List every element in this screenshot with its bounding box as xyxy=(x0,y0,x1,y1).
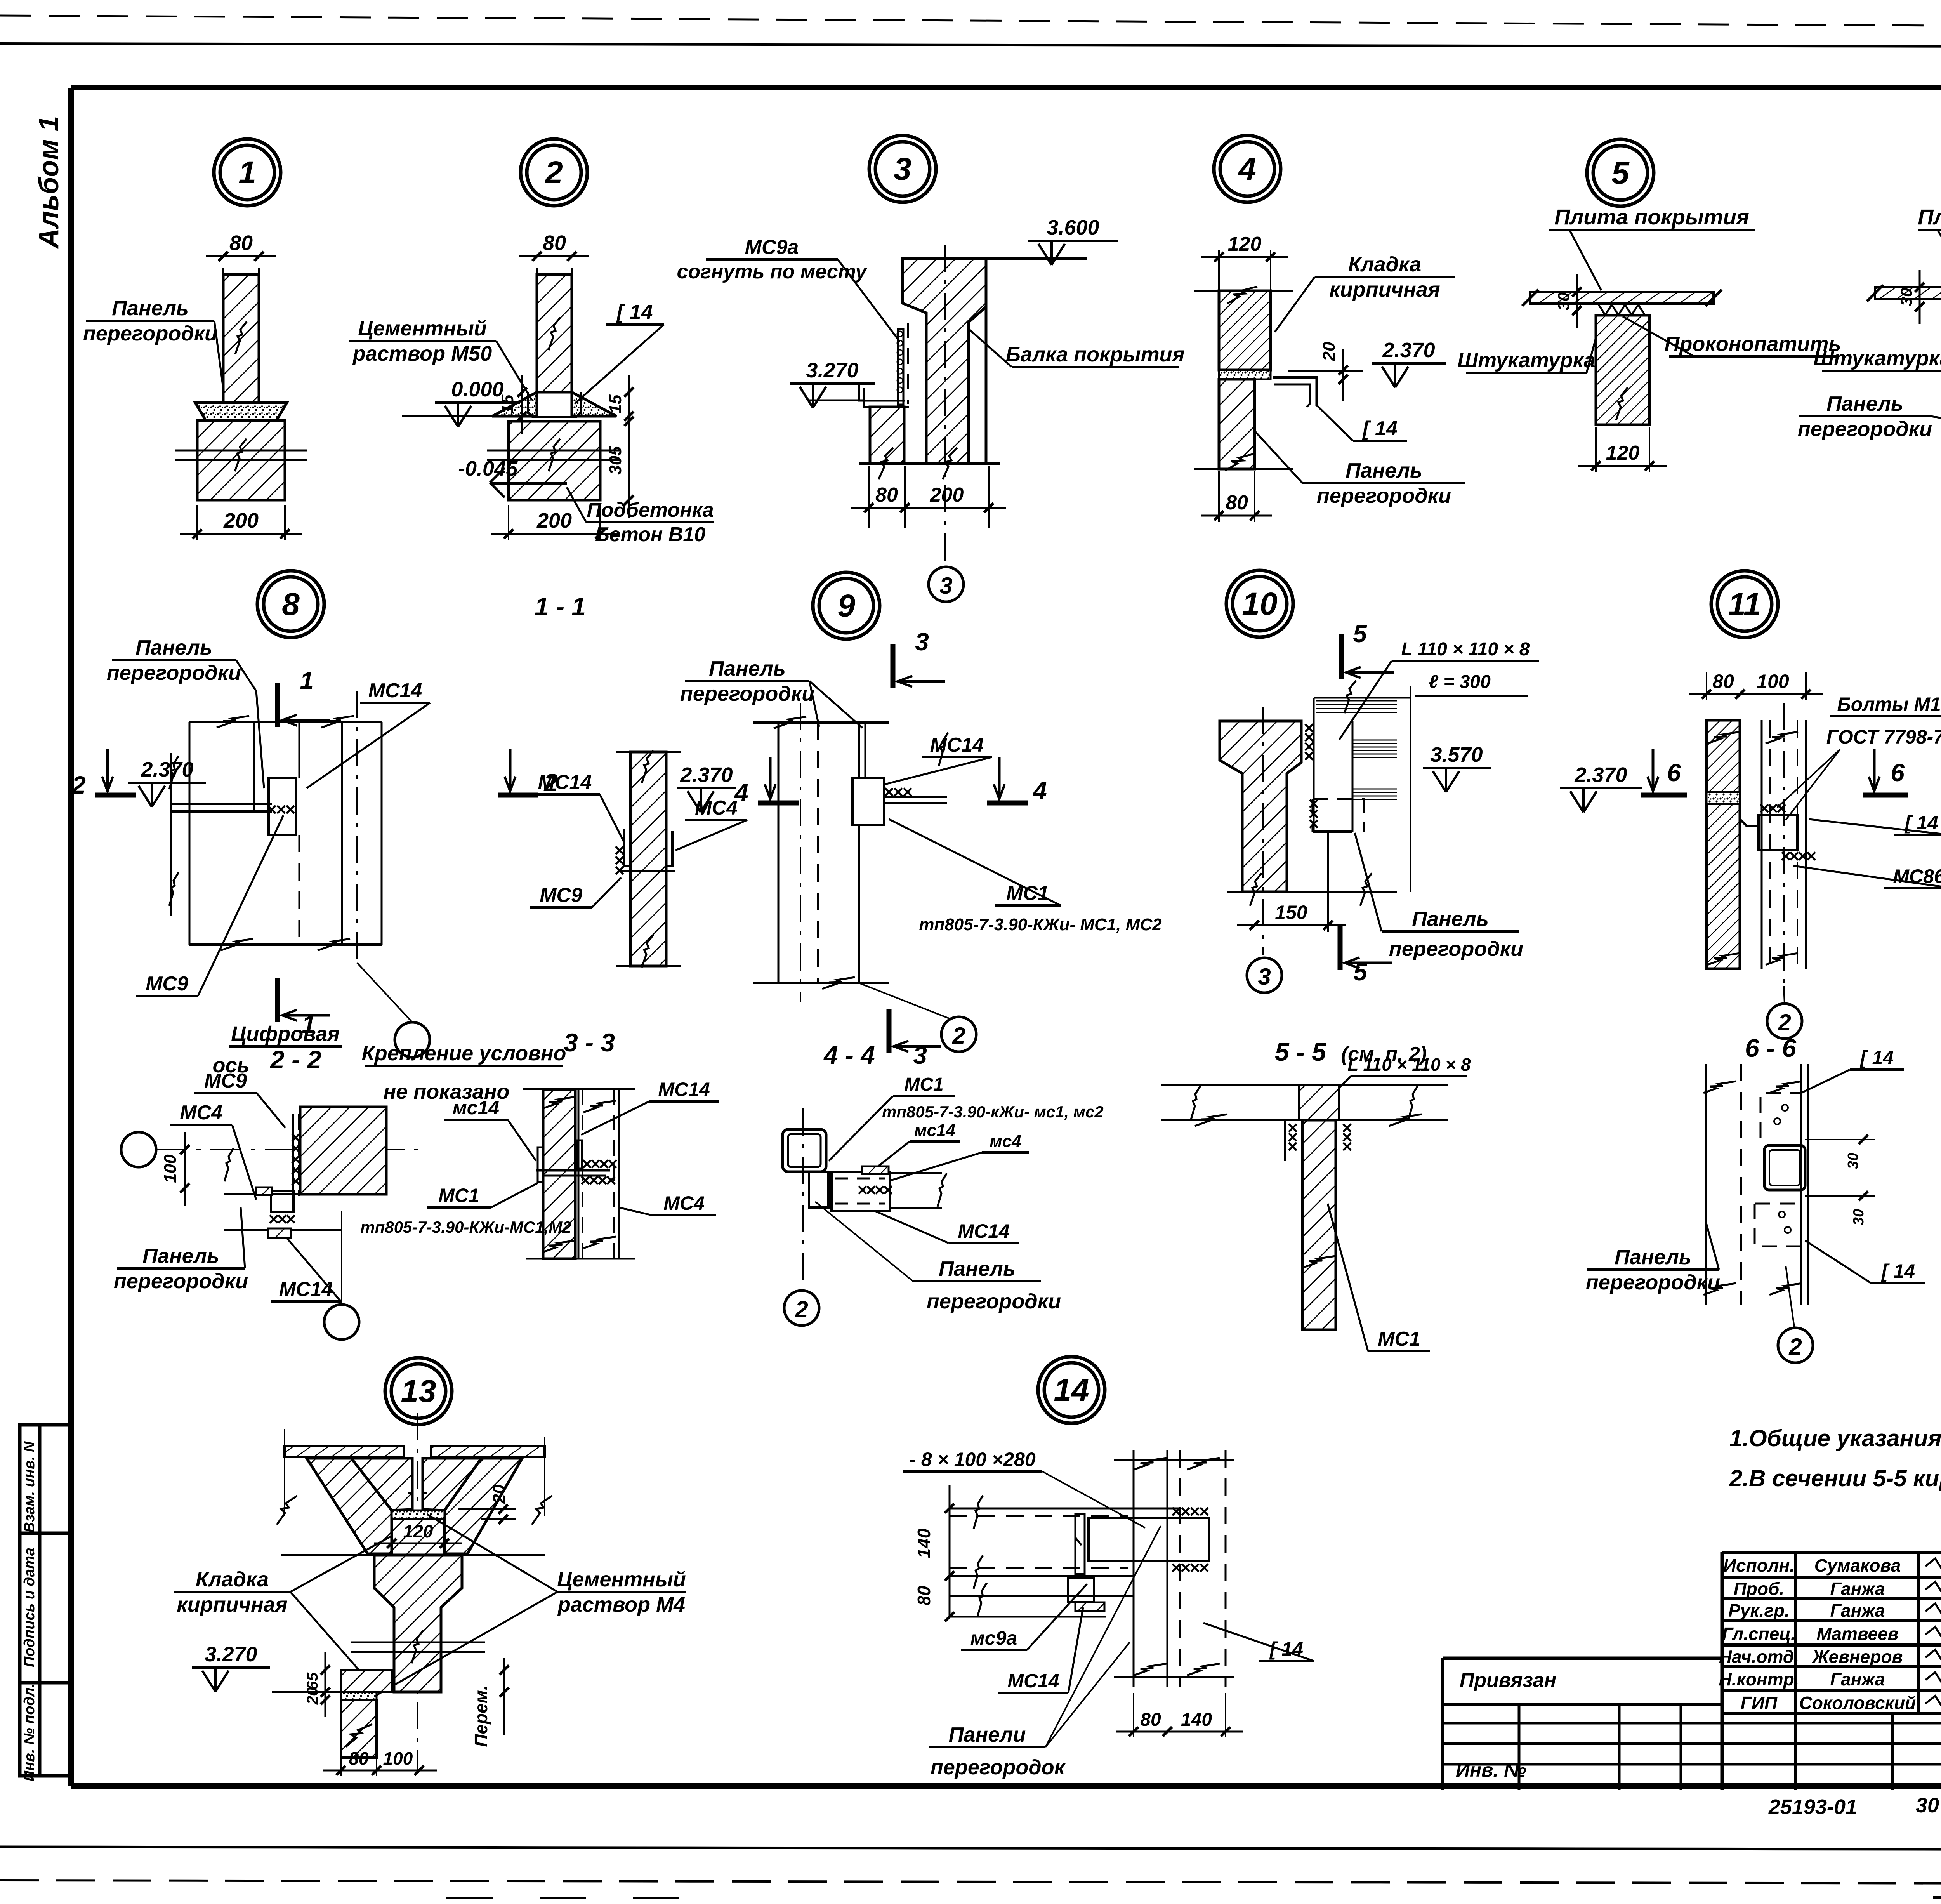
svg-text:перегородки: перегородки xyxy=(114,1270,248,1293)
svg-text:тп805-7-3.90-КЖи-МС1,М2: тп805-7-3.90-КЖи-МС1,М2 xyxy=(360,1218,571,1236)
svg-text:2.370: 2.370 xyxy=(1382,339,1435,362)
svg-text:перегородки: перегородки xyxy=(83,322,217,345)
svg-text:140: 140 xyxy=(1181,1709,1212,1730)
svg-text:80: 80 xyxy=(1712,671,1734,692)
svg-text:100: 100 xyxy=(161,1154,180,1183)
svg-text:Соколовский: Соколовский xyxy=(1799,1693,1916,1713)
svg-text:30: 30 xyxy=(1554,292,1573,311)
svg-text:6 - 6: 6 - 6 xyxy=(1745,1034,1797,1062)
svg-text:1.Общие указания см. лист: 1.Общие указания см. лист 8 xyxy=(1729,1425,1941,1451)
svg-text:20: 20 xyxy=(1319,342,1339,361)
svg-text:Панель: Панель xyxy=(142,1244,219,1268)
svg-text:80: 80 xyxy=(229,231,253,255)
svg-text:5: 5 xyxy=(1611,155,1630,191)
svg-text:Балка покрытия: Балка покрытия xyxy=(1006,343,1185,366)
svg-text:-0.045: -0.045 xyxy=(458,457,518,480)
svg-text:Плита покрытия: Плита покрытия xyxy=(1918,205,1941,229)
svg-text:Инв. №: Инв. № xyxy=(1456,1759,1526,1781)
svg-text:2: 2 xyxy=(544,155,563,190)
svg-text:МС14: МС14 xyxy=(538,771,592,794)
svg-text:2: 2 xyxy=(952,1023,965,1049)
svg-text:Панель: Панель xyxy=(1412,907,1489,931)
svg-text:перегородок: перегородок xyxy=(931,1756,1066,1779)
svg-text:25193-01: 25193-01 xyxy=(1768,1795,1857,1819)
svg-text:МС4: МС4 xyxy=(663,1192,705,1214)
svg-text:МС1: МС1 xyxy=(1378,1328,1420,1350)
svg-text:6: 6 xyxy=(1667,759,1681,787)
svg-text:80: 80 xyxy=(1226,492,1248,514)
svg-text:Сумакова: Сумакова xyxy=(1814,1555,1901,1576)
svg-text:Кладка: Кладка xyxy=(196,1568,269,1591)
svg-text:Матвеев: Матвеев xyxy=(1817,1624,1899,1644)
svg-text:Плита покрытия: Плита покрытия xyxy=(1554,205,1749,229)
svg-text:11: 11 xyxy=(1728,587,1761,622)
svg-text:4 - 4: 4 - 4 xyxy=(823,1041,875,1069)
svg-text:3.600: 3.600 xyxy=(1047,216,1099,239)
svg-text:6: 6 xyxy=(1891,759,1905,787)
svg-text:5: 5 xyxy=(1353,620,1367,648)
svg-text:Гл.спец.: Гл.спец. xyxy=(1722,1624,1796,1644)
svg-text:МС1: МС1 xyxy=(438,1185,479,1206)
svg-text:200: 200 xyxy=(930,484,964,506)
svg-text:3.270: 3.270 xyxy=(806,359,858,382)
svg-text:Перем.: Перем. xyxy=(471,1685,491,1747)
svg-text:305: 305 xyxy=(606,446,625,475)
svg-text:20: 20 xyxy=(490,1484,509,1504)
svg-text:5: 5 xyxy=(1353,958,1368,986)
svg-text:2.370: 2.370 xyxy=(1574,763,1627,787)
svg-text:перегородки: перегородки xyxy=(1586,1271,1720,1294)
svg-text:3: 3 xyxy=(939,573,952,599)
svg-text:8: 8 xyxy=(282,587,300,622)
svg-text:- 8 × 100 ×280: - 8 × 100 ×280 xyxy=(909,1449,1035,1470)
svg-text:Цементный: Цементный xyxy=(557,1568,686,1591)
svg-text:3: 3 xyxy=(915,628,929,656)
svg-text:Панели: Панели xyxy=(949,1723,1026,1746)
svg-text:3.570: 3.570 xyxy=(1430,743,1483,766)
svg-text:2: 2 xyxy=(795,1296,808,1322)
svg-text:МС9: МС9 xyxy=(540,884,582,907)
svg-text:Панель: Панель xyxy=(135,636,212,659)
svg-text:30: 30 xyxy=(1897,288,1915,306)
svg-text:Проб.: Проб. xyxy=(1734,1579,1785,1599)
svg-text:Панель: Панель xyxy=(709,657,786,680)
svg-text:140: 140 xyxy=(914,1528,934,1558)
svg-text:Инв. № подл.: Инв. № подл. xyxy=(21,1683,38,1782)
svg-text:мс14: мс14 xyxy=(453,1097,499,1119)
svg-text:15: 15 xyxy=(606,394,625,413)
svg-text:тп805-7-3.90-кЖи- мс1, мс2: тп805-7-3.90-кЖи- мс1, мс2 xyxy=(882,1103,1104,1121)
svg-text:Привязан: Привязан xyxy=(1460,1669,1556,1692)
svg-text:МС14: МС14 xyxy=(1007,1670,1059,1692)
svg-text:перегородки: перегородки xyxy=(107,661,241,684)
svg-text:80: 80 xyxy=(349,1748,369,1768)
svg-text:Панель: Панель xyxy=(1615,1246,1691,1269)
svg-text:5 - 5: 5 - 5 xyxy=(1275,1037,1326,1066)
svg-text:1: 1 xyxy=(300,667,314,695)
svg-text:Панель: Панель xyxy=(112,297,189,320)
svg-text:Панель: Панель xyxy=(939,1257,1016,1280)
svg-text:Ганжа: Ганжа xyxy=(1830,1669,1885,1689)
svg-text:120: 120 xyxy=(1606,442,1640,464)
svg-text:2.370: 2.370 xyxy=(680,763,733,787)
svg-text:30: 30 xyxy=(1851,1209,1867,1225)
svg-text:120: 120 xyxy=(403,1521,433,1541)
svg-text:Исполн.: Исполн. xyxy=(1723,1555,1795,1576)
svg-text:Взам. инв. N: Взам. инв. N xyxy=(21,1441,38,1532)
svg-text:65: 65 xyxy=(304,1672,321,1690)
svg-text:мс9а: мс9а xyxy=(970,1627,1017,1649)
svg-text:Подбетонка: Подбетонка xyxy=(587,499,714,521)
svg-text:Подпись и дата: Подпись и дата xyxy=(21,1548,38,1667)
svg-text:Панель: Панель xyxy=(1826,392,1903,415)
svg-text:13: 13 xyxy=(401,1374,436,1409)
svg-text:Нач.отд.: Нач.отд. xyxy=(1719,1647,1799,1667)
svg-text:200: 200 xyxy=(536,509,572,532)
svg-text:120: 120 xyxy=(1228,233,1262,255)
svg-text:2: 2 xyxy=(71,771,86,799)
svg-text:МС4: МС4 xyxy=(180,1101,222,1124)
svg-text:МС14: МС14 xyxy=(658,1079,710,1100)
svg-text:раствор М4: раствор М4 xyxy=(557,1593,685,1616)
svg-text:Жевнеров: Жевнеров xyxy=(1812,1647,1903,1667)
svg-text:Н.контр.: Н.контр. xyxy=(1719,1669,1799,1689)
svg-text:Ганжа: Ганжа xyxy=(1830,1579,1885,1599)
svg-text:2.370: 2.370 xyxy=(141,758,193,781)
svg-text:тп805-7-3.90-КЖи- МС1, МС2: тп805-7-3.90-КЖи- МС1, МС2 xyxy=(919,915,1162,934)
svg-text:Рук.гр.: Рук.гр. xyxy=(1728,1600,1790,1621)
svg-text:3 - 3: 3 - 3 xyxy=(564,1028,615,1057)
svg-text:100: 100 xyxy=(383,1748,413,1768)
svg-text:кирпичная: кирпичная xyxy=(1329,278,1440,301)
svg-text:200: 200 xyxy=(223,509,259,532)
svg-text:Кладка: Кладка xyxy=(1348,253,1421,276)
svg-text:МС14: МС14 xyxy=(958,1220,1009,1242)
svg-text:МС1: МС1 xyxy=(1006,882,1049,905)
svg-text:4: 4 xyxy=(734,779,748,807)
svg-text:Штукатурка: Штукатурка xyxy=(1813,347,1941,370)
svg-text:перегородки: перегородки xyxy=(1317,484,1451,507)
svg-text:100: 100 xyxy=(1757,671,1789,692)
svg-text:перегородки: перегородки xyxy=(1798,417,1932,441)
svg-text:30: 30 xyxy=(1845,1153,1861,1169)
svg-text:МС14: МС14 xyxy=(930,734,984,756)
svg-text:Бетон В10: Бетон В10 xyxy=(595,523,705,546)
svg-text:2.В сечении 5-5 кирпичная: 2.В сечении 5-5 кирпичная кладка условно… xyxy=(1729,1465,1941,1491)
svg-text:ГИП: ГИП xyxy=(1741,1693,1778,1713)
svg-text:Панель: Панель xyxy=(1346,459,1422,482)
svg-text:L 110 × 110 × 8: L 110 × 110 × 8 xyxy=(1347,1054,1471,1075)
svg-text:МС1: МС1 xyxy=(904,1074,943,1095)
svg-text:Ганжа: Ганжа xyxy=(1830,1600,1885,1621)
svg-text:80: 80 xyxy=(875,484,898,506)
svg-text:[ 14: [ 14 xyxy=(1881,1260,1915,1282)
svg-text:3: 3 xyxy=(894,151,911,187)
svg-text:МС9: МС9 xyxy=(204,1070,247,1092)
svg-text:мс4: мс4 xyxy=(990,1132,1021,1151)
svg-text:МС9: МС9 xyxy=(146,973,188,995)
svg-text:30: 30 xyxy=(1916,1794,1939,1817)
svg-text:3: 3 xyxy=(1258,964,1271,990)
svg-text:4: 4 xyxy=(1238,151,1256,187)
svg-text:14: 14 xyxy=(1054,1372,1089,1408)
svg-text:10: 10 xyxy=(1242,586,1277,622)
svg-text:80: 80 xyxy=(1140,1709,1161,1730)
svg-text:L 110 × 110 × 8: L 110 × 110 × 8 xyxy=(1401,639,1530,660)
svg-text:согнуть по месту: согнуть по месту xyxy=(677,261,868,283)
svg-text:раствор М50: раствор М50 xyxy=(352,342,492,365)
svg-text:150: 150 xyxy=(1275,902,1307,923)
svg-text:2: 2 xyxy=(1778,1009,1791,1035)
svg-text:Цифровая: Цифровая xyxy=(231,1022,340,1046)
svg-text:2: 2 xyxy=(1788,1334,1802,1360)
svg-text:[ 14: [ 14 xyxy=(1859,1047,1894,1068)
svg-text:перегородки: перегородки xyxy=(927,1290,1061,1313)
svg-text:Штукатурка: Штукатурка xyxy=(1457,349,1595,372)
svg-text:[ 14: [ 14 xyxy=(1362,417,1398,440)
svg-text:Крепление условно: Крепление условно xyxy=(362,1042,566,1065)
svg-text:15: 15 xyxy=(498,394,517,413)
svg-text:[ 14: [ 14 xyxy=(616,301,653,324)
svg-text:3.270: 3.270 xyxy=(205,1643,257,1666)
svg-text:Альбом 1: Альбом 1 xyxy=(33,116,64,249)
svg-text:мс14: мс14 xyxy=(914,1121,955,1140)
svg-text:перегородки: перегородки xyxy=(1389,937,1523,961)
svg-text:80: 80 xyxy=(543,231,566,255)
svg-text:кирпичная: кирпичная xyxy=(177,1593,287,1616)
svg-text:Болты М10: Болты М10 xyxy=(1837,693,1941,715)
svg-text:перегородки: перегородки xyxy=(680,682,814,705)
svg-text:20: 20 xyxy=(304,1687,321,1705)
svg-text:2 - 2: 2 - 2 xyxy=(269,1045,321,1074)
svg-text:ГОСТ 7798-77*: ГОСТ 7798-77* xyxy=(1826,726,1941,748)
svg-text:МС14: МС14 xyxy=(368,679,422,702)
svg-text:9: 9 xyxy=(837,588,855,624)
svg-text:1 - 1: 1 - 1 xyxy=(535,592,586,621)
svg-text:ℓ = 300: ℓ = 300 xyxy=(1429,672,1491,692)
svg-text:0.000: 0.000 xyxy=(451,378,503,401)
svg-text:3: 3 xyxy=(913,1041,927,1069)
svg-text:Цементный: Цементный xyxy=(358,317,487,340)
svg-text:4: 4 xyxy=(1032,777,1047,804)
svg-text:МС9а: МС9а xyxy=(745,236,799,259)
svg-text:1: 1 xyxy=(238,155,256,190)
svg-text:80: 80 xyxy=(914,1586,934,1606)
